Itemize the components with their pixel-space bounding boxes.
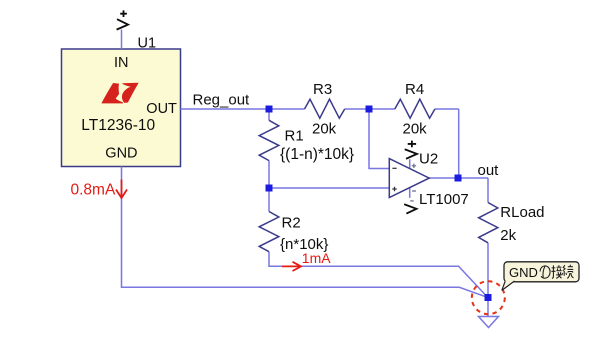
- svg-text:20k: 20k: [312, 121, 337, 138]
- svg-text:2k: 2k: [500, 227, 516, 244]
- svg-text:RLoad: RLoad: [500, 204, 544, 221]
- svg-text:{(1-n)*10k}: {(1-n)*10k}: [280, 146, 354, 163]
- svg-text:GND: GND: [509, 265, 538, 280]
- svg-text:R1: R1: [285, 127, 304, 144]
- svg-text:20k: 20k: [403, 121, 428, 138]
- svg-text:out: out: [478, 162, 500, 179]
- svg-text:OUT: OUT: [146, 101, 177, 117]
- svg-text:IN: IN: [114, 55, 129, 71]
- svg-text:R2: R2: [282, 215, 301, 232]
- svg-text:LT1007: LT1007: [419, 191, 469, 208]
- svg-text:R3: R3: [313, 81, 332, 98]
- svg-text:U2: U2: [419, 151, 438, 168]
- svg-text:1mA: 1mA: [302, 250, 331, 266]
- svg-text:R4: R4: [405, 81, 424, 98]
- svg-text:GND: GND: [105, 146, 137, 162]
- svg-text:LT1236-10: LT1236-10: [81, 117, 155, 134]
- svg-text:0.8mA: 0.8mA: [71, 181, 116, 198]
- svg-text:Reg_out: Reg_out: [193, 91, 251, 108]
- svg-text:U1: U1: [138, 36, 157, 52]
